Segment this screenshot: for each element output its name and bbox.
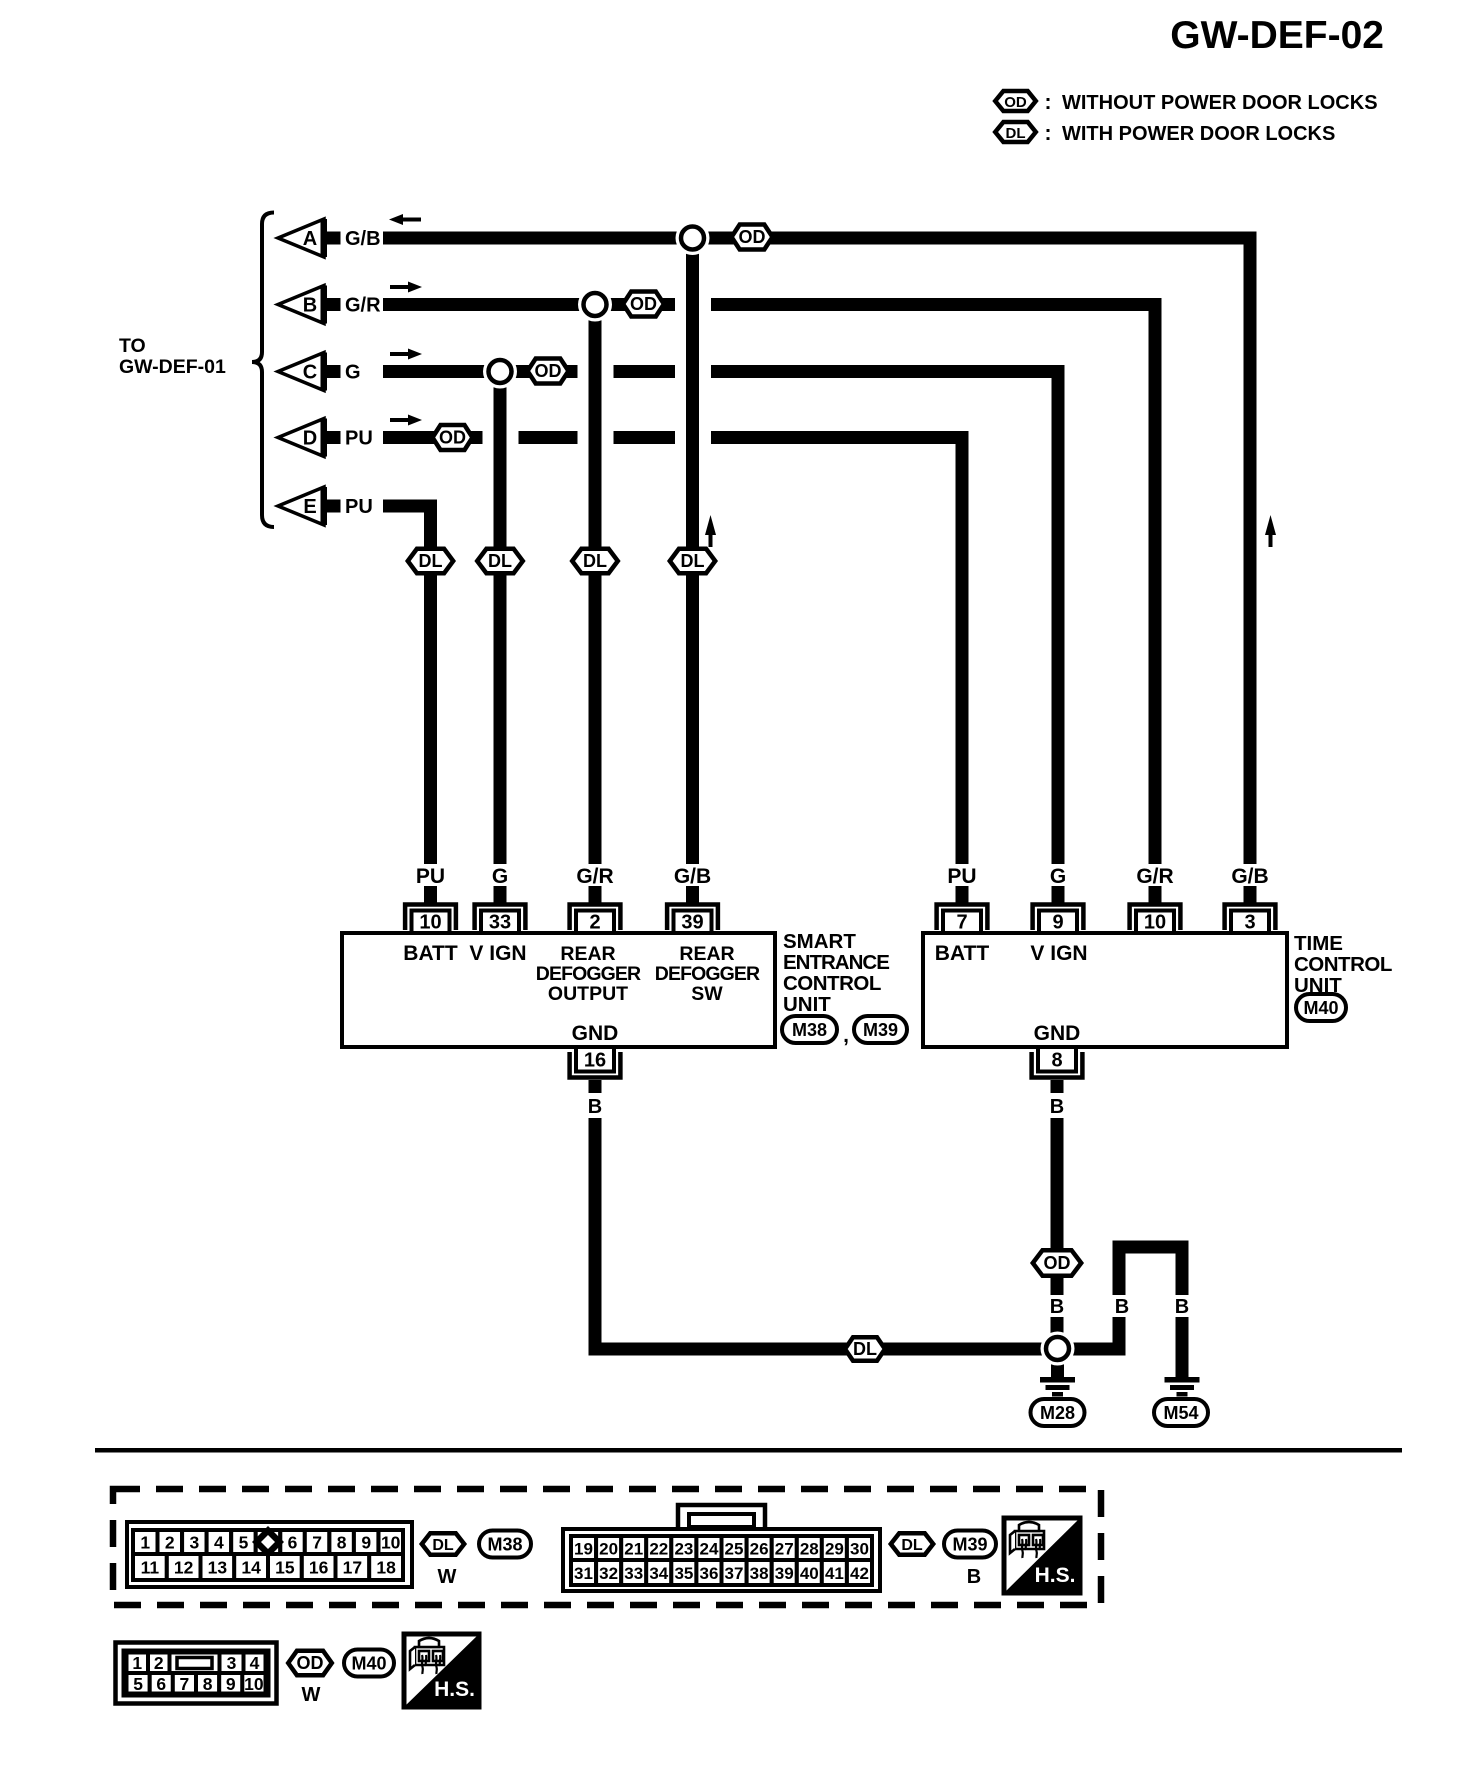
svg-text:28: 28 — [800, 1540, 819, 1559]
svg-text:23: 23 — [674, 1540, 693, 1559]
svg-text:22: 22 — [649, 1540, 668, 1559]
svg-text:3: 3 — [227, 1653, 237, 1673]
svg-text:7: 7 — [956, 912, 967, 934]
svg-text:41: 41 — [825, 1564, 844, 1583]
svg-text:9: 9 — [1052, 912, 1063, 934]
svg-text:G/B: G/B — [1231, 865, 1268, 888]
svg-text:TIME: TIME — [1294, 932, 1343, 955]
svg-text:16: 16 — [309, 1558, 329, 1578]
svg-text:TO: TO — [119, 335, 146, 357]
svg-text:PU: PU — [345, 428, 373, 450]
svg-text:6: 6 — [288, 1533, 298, 1553]
svg-text:30: 30 — [850, 1540, 869, 1559]
svg-text:B: B — [1175, 1296, 1189, 1318]
svg-text:33: 33 — [489, 912, 511, 934]
svg-text:35: 35 — [674, 1564, 693, 1583]
svg-text:W: W — [438, 1566, 457, 1588]
svg-text:ENTRANCE: ENTRANCE — [783, 951, 889, 974]
svg-text:7: 7 — [312, 1533, 322, 1553]
svg-text:32: 32 — [599, 1564, 618, 1583]
svg-text:,: , — [843, 1024, 849, 1047]
svg-text:5: 5 — [239, 1533, 249, 1553]
svg-text:DL: DL — [432, 1537, 454, 1554]
svg-text:5: 5 — [133, 1674, 143, 1694]
svg-text:OUTPUT: OUTPUT — [548, 983, 628, 1005]
svg-text:17: 17 — [343, 1558, 362, 1578]
svg-text:1: 1 — [132, 1653, 142, 1673]
svg-text:B: B — [1115, 1296, 1129, 1318]
svg-text:20: 20 — [599, 1540, 618, 1559]
svg-text:B: B — [303, 295, 317, 317]
svg-text:DEFOGGER: DEFOGGER — [655, 963, 760, 985]
svg-text:OD: OD — [297, 1653, 324, 1673]
svg-text:7: 7 — [180, 1674, 190, 1694]
svg-text:OD: OD — [1004, 94, 1027, 111]
svg-text:DL: DL — [853, 1339, 877, 1359]
svg-text:M40: M40 — [351, 1654, 386, 1674]
svg-text:PU: PU — [947, 865, 976, 888]
svg-text:UNIT: UNIT — [783, 993, 831, 1016]
svg-text:25: 25 — [725, 1540, 744, 1559]
svg-text:M40: M40 — [1303, 998, 1338, 1018]
svg-text:1: 1 — [140, 1533, 150, 1553]
svg-text:G/R: G/R — [1136, 865, 1173, 888]
svg-text:8: 8 — [1051, 1050, 1062, 1072]
svg-text::: : — [1045, 91, 1052, 114]
svg-text:19: 19 — [574, 1540, 593, 1559]
svg-text:BATT: BATT — [403, 942, 458, 965]
svg-text:10: 10 — [419, 912, 441, 934]
svg-text:SW: SW — [691, 983, 723, 1005]
svg-text:DL: DL — [681, 551, 705, 571]
svg-text:D: D — [303, 428, 317, 450]
svg-text:36: 36 — [700, 1564, 719, 1583]
svg-text:V IGN: V IGN — [1030, 942, 1087, 965]
svg-text:8: 8 — [337, 1533, 347, 1553]
svg-text:CONTROL: CONTROL — [783, 972, 881, 995]
svg-text:38: 38 — [750, 1564, 769, 1583]
svg-text:DL: DL — [1006, 125, 1026, 142]
svg-text:M38: M38 — [792, 1020, 827, 1040]
svg-text:GW-DEF-02: GW-DEF-02 — [1170, 14, 1384, 57]
svg-text:18: 18 — [376, 1558, 396, 1578]
svg-text:OD: OD — [1044, 1253, 1071, 1273]
svg-text:42: 42 — [850, 1564, 869, 1583]
svg-text:B: B — [967, 1566, 981, 1588]
svg-text:DL: DL — [419, 551, 443, 571]
svg-text:PU: PU — [416, 865, 445, 888]
svg-text:M54: M54 — [1163, 1403, 1198, 1423]
svg-text:W: W — [302, 1684, 321, 1706]
svg-text:37: 37 — [725, 1564, 744, 1583]
svg-text:40: 40 — [800, 1564, 819, 1583]
svg-text:B: B — [1050, 1096, 1064, 1118]
svg-text:CONTROL: CONTROL — [1294, 953, 1392, 976]
svg-text:B: B — [1050, 1296, 1064, 1318]
svg-text:WITH POWER DOOR LOCKS: WITH POWER DOOR LOCKS — [1062, 123, 1335, 145]
svg-text:8: 8 — [203, 1674, 213, 1694]
svg-text:13: 13 — [208, 1558, 228, 1578]
svg-text:24: 24 — [700, 1540, 719, 1559]
svg-text:G/R: G/R — [345, 295, 381, 317]
svg-text:DL: DL — [488, 551, 512, 571]
svg-text::: : — [1045, 122, 1052, 145]
svg-text:34: 34 — [649, 1564, 668, 1583]
svg-text:10: 10 — [244, 1674, 264, 1694]
svg-text:E: E — [303, 496, 316, 518]
svg-text:16: 16 — [584, 1050, 606, 1072]
svg-text:29: 29 — [825, 1540, 844, 1559]
svg-text:3: 3 — [1244, 912, 1255, 934]
svg-text:2: 2 — [165, 1533, 175, 1553]
svg-text:REAR: REAR — [560, 943, 615, 965]
svg-text:33: 33 — [624, 1564, 643, 1583]
svg-text:39: 39 — [681, 912, 703, 934]
svg-text:H.S.: H.S. — [1035, 1564, 1076, 1587]
svg-text:3: 3 — [190, 1533, 200, 1553]
svg-text:G: G — [492, 865, 508, 888]
svg-text:REAR: REAR — [679, 943, 734, 965]
svg-text:2: 2 — [589, 912, 600, 934]
svg-text:WITHOUT POWER DOOR LOCKS: WITHOUT POWER DOOR LOCKS — [1062, 92, 1378, 114]
svg-text:DL: DL — [901, 1537, 923, 1554]
svg-text:C: C — [303, 362, 317, 384]
svg-text:4: 4 — [250, 1653, 260, 1673]
svg-text:12: 12 — [174, 1558, 194, 1578]
svg-text:GW-DEF-01: GW-DEF-01 — [119, 356, 226, 378]
svg-text:11: 11 — [141, 1558, 160, 1578]
svg-text:21: 21 — [624, 1540, 643, 1559]
svg-text:GND: GND — [1034, 1022, 1081, 1045]
svg-text:G/B: G/B — [674, 865, 711, 888]
svg-text:A: A — [303, 228, 317, 250]
svg-text:PU: PU — [345, 496, 373, 518]
svg-text:G: G — [1050, 865, 1066, 888]
svg-text:26: 26 — [750, 1540, 769, 1559]
svg-text:39: 39 — [775, 1564, 794, 1583]
svg-text:G: G — [345, 362, 361, 384]
svg-text:DEFOGGER: DEFOGGER — [536, 963, 641, 985]
svg-text:SMART: SMART — [783, 930, 856, 953]
svg-text:BATT: BATT — [935, 942, 990, 965]
svg-text:H.S.: H.S. — [434, 1678, 475, 1701]
svg-text:10: 10 — [381, 1533, 401, 1553]
svg-text:31: 31 — [574, 1564, 593, 1583]
svg-text:OD: OD — [439, 428, 466, 448]
svg-text:9: 9 — [361, 1533, 371, 1553]
svg-text:M39: M39 — [952, 1535, 987, 1555]
svg-text:DL: DL — [583, 551, 607, 571]
svg-text:OD: OD — [739, 227, 766, 247]
svg-text:2: 2 — [154, 1653, 164, 1673]
svg-text:V IGN: V IGN — [469, 942, 526, 965]
svg-text:27: 27 — [775, 1540, 794, 1559]
svg-text:9: 9 — [226, 1674, 236, 1694]
svg-text:M28: M28 — [1040, 1403, 1075, 1423]
svg-text:M39: M39 — [863, 1020, 898, 1040]
svg-text:GND: GND — [572, 1022, 619, 1045]
svg-text:6: 6 — [156, 1674, 166, 1694]
svg-text:B: B — [588, 1096, 602, 1118]
svg-text:OD: OD — [630, 294, 657, 314]
svg-text:14: 14 — [241, 1558, 261, 1578]
svg-text:M38: M38 — [487, 1535, 522, 1555]
svg-text:OD: OD — [535, 361, 562, 381]
svg-text:G/B: G/B — [345, 228, 381, 250]
svg-text:10: 10 — [1144, 912, 1166, 934]
svg-text:4: 4 — [214, 1533, 224, 1553]
svg-text:G/R: G/R — [576, 865, 613, 888]
svg-text:15: 15 — [275, 1558, 295, 1578]
